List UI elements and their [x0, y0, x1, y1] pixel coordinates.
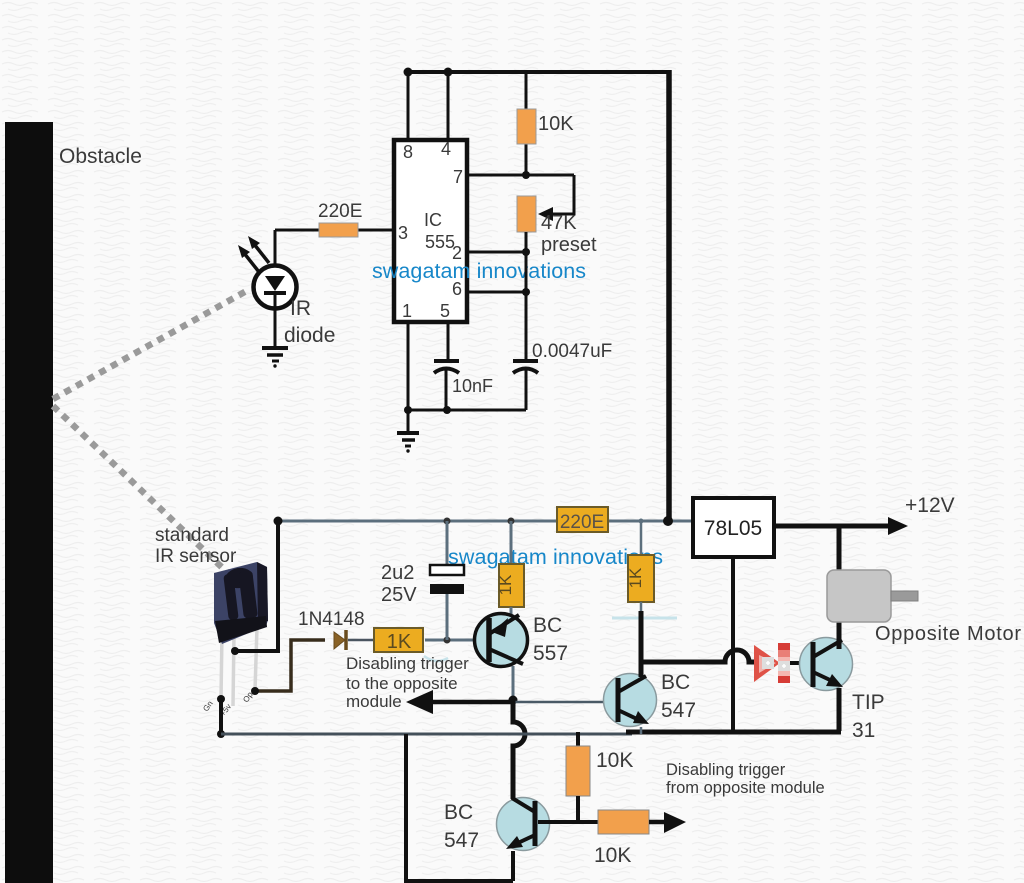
svg-text:47K: 47K	[541, 212, 577, 234]
svg-text:1N4148: 1N4148	[298, 609, 365, 630]
svg-text:1K: 1K	[387, 631, 412, 653]
svg-text:TIP: TIP	[852, 691, 885, 714]
svg-text:2u2: 2u2	[381, 562, 414, 584]
svg-text:1K: 1K	[496, 574, 515, 595]
svg-text:547: 547	[661, 699, 696, 722]
svg-text:1: 1	[402, 301, 412, 321]
svg-text:+12V: +12V	[905, 494, 955, 517]
svg-text:25V: 25V	[381, 584, 417, 606]
svg-text:IC: IC	[424, 210, 442, 230]
svg-text:IR: IR	[290, 297, 311, 320]
svg-text:220E: 220E	[318, 201, 362, 222]
svg-text:31: 31	[852, 719, 875, 742]
svg-text:78L05: 78L05	[704, 517, 762, 540]
svg-text:547: 547	[444, 829, 479, 852]
svg-text:557: 557	[533, 642, 568, 665]
svg-text:555: 555	[425, 232, 455, 252]
svg-text:10K: 10K	[594, 844, 631, 867]
svg-text:from opposite module: from opposite module	[666, 779, 825, 797]
svg-text:Opposite Motor: Opposite Motor	[875, 623, 1021, 645]
svg-text:module: module	[346, 692, 402, 711]
svg-text:10K: 10K	[596, 749, 633, 772]
svg-text:10K: 10K	[538, 113, 574, 135]
svg-text:BC: BC	[444, 801, 473, 824]
svg-text:Disabling trigger: Disabling trigger	[346, 654, 469, 673]
svg-text:7: 7	[453, 167, 463, 187]
svg-text:6: 6	[452, 279, 462, 299]
svg-text:Disabling trigger: Disabling trigger	[666, 761, 786, 779]
svg-text:0.0047uF: 0.0047uF	[532, 341, 612, 362]
svg-text:Obstacle: Obstacle	[59, 145, 142, 168]
svg-text:10nF: 10nF	[452, 376, 493, 396]
svg-text:3: 3	[398, 223, 408, 243]
svg-text:220E: 220E	[560, 512, 604, 533]
svg-text:preset: preset	[541, 234, 597, 256]
svg-text:4: 4	[441, 139, 451, 159]
svg-text:BC: BC	[661, 671, 690, 694]
svg-text:IR sensor: IR sensor	[155, 546, 237, 567]
svg-text:standard: standard	[155, 525, 229, 546]
svg-text:diode: diode	[284, 324, 335, 347]
svg-text:1K: 1K	[626, 567, 645, 588]
svg-text:BC: BC	[533, 614, 562, 637]
svg-text:8: 8	[403, 142, 413, 162]
svg-text:5: 5	[440, 301, 450, 321]
svg-text:swagatam innovations: swagatam innovations	[372, 259, 586, 283]
svg-text:to the opposite: to the opposite	[346, 674, 458, 693]
